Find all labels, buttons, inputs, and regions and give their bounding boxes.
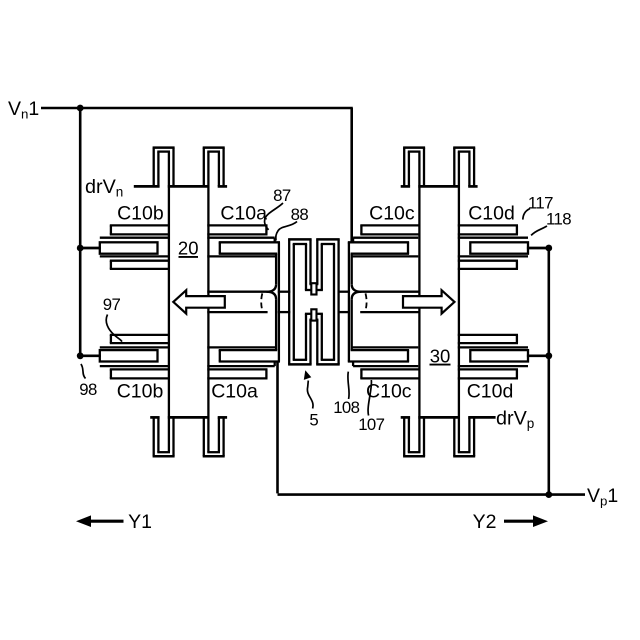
drive electrode fork top-right xyxy=(401,148,478,187)
node dot Vp1 corner junction xyxy=(545,491,552,498)
leader line 107 xyxy=(368,380,371,416)
svg-text:5: 5 xyxy=(309,411,318,430)
node dot C10d lower electrode tap xyxy=(545,352,552,359)
svg-text:C10c: C10c xyxy=(366,381,412,403)
label C10a lower xyxy=(211,381,258,403)
label C10c lower xyxy=(366,381,412,403)
svg-text:97: 97 xyxy=(103,295,121,314)
node Vn1 junction dot xyxy=(77,105,84,112)
axis arrow Y2 (rightward) xyxy=(504,515,548,527)
label drVn xyxy=(85,176,123,200)
label 5 xyxy=(309,411,318,430)
svg-text:C10b: C10b xyxy=(117,203,164,225)
leader line 88 xyxy=(276,222,297,241)
capacitor C10d upper comb xyxy=(458,225,528,269)
leader line 108 xyxy=(348,372,349,399)
wire Vp1 drop from C10a-lower stator xyxy=(276,362,279,494)
coupling tab lower of mass 5 xyxy=(311,309,316,320)
electrode lead C10b upper xyxy=(80,247,101,250)
node dot C10b lower electrode tap xyxy=(77,352,84,359)
label 107 xyxy=(358,415,384,434)
svg-text:Y1: Y1 xyxy=(128,511,152,533)
svg-text:C10b: C10b xyxy=(117,381,164,403)
capacitor C10d lower comb xyxy=(458,335,528,379)
axis arrow Y1 (leftward) xyxy=(76,515,124,527)
movable plate bar right of mass 5 xyxy=(316,239,340,364)
label Vn1 xyxy=(8,98,39,122)
node dot C10d upper electrode tap xyxy=(545,245,552,252)
block arrow drive direction right xyxy=(403,290,455,313)
svg-text:C10d: C10d xyxy=(467,381,514,403)
label 88 xyxy=(291,205,309,224)
label 108 xyxy=(333,398,359,417)
wire Vp1 horizontal bus xyxy=(278,493,586,496)
wire Vp1 right vertical bus xyxy=(547,248,550,495)
electrode lead C10b lower xyxy=(80,354,101,357)
spine rotor frame left (stator 30 left column) xyxy=(418,152,420,453)
svg-text:C10a: C10a xyxy=(211,381,258,403)
svg-text:118: 118 xyxy=(546,210,571,229)
label Y2 xyxy=(473,511,497,533)
label 98 xyxy=(79,380,97,399)
svg-text:108: 108 xyxy=(333,398,359,417)
bridge lower between mass bars xyxy=(309,319,318,321)
svg-text:30: 30 xyxy=(430,346,451,367)
wire Vn1 left vertical bus xyxy=(79,108,82,356)
capacitor C10a upper comb xyxy=(207,225,280,291)
label 30 stator right xyxy=(430,346,451,367)
label C10a upper xyxy=(220,203,267,225)
capacitor C10a lower comb xyxy=(207,292,280,379)
label drVp xyxy=(496,408,534,432)
drive electrode fork bottom-right (drVp comb) xyxy=(401,417,496,456)
spine rotor frame left (stator 20 left column) xyxy=(168,152,170,453)
node dot C10b upper electrode tap xyxy=(77,245,84,252)
spine rotor frame right (stator 20 right column) xyxy=(207,152,209,453)
svg-text:87: 87 xyxy=(273,186,291,205)
block arrow drive direction left xyxy=(173,290,225,313)
capacitor C10c lower comb xyxy=(348,292,421,379)
svg-text:C10c: C10c xyxy=(369,203,415,225)
electrode lead C10d upper xyxy=(527,247,549,250)
label 20 stator left xyxy=(178,238,199,259)
leader line 117 xyxy=(523,209,530,220)
label 118 xyxy=(546,210,571,229)
svg-text:C10a: C10a xyxy=(220,203,267,225)
leader line 97 xyxy=(106,315,122,342)
label 97 xyxy=(103,295,121,314)
flexure dashed arc right xyxy=(366,293,367,310)
svg-text:Y2: Y2 xyxy=(473,511,497,533)
capacitor C10b lower comb xyxy=(100,335,170,379)
label Y1 xyxy=(128,511,152,533)
movable plate bar left of mass 5 xyxy=(288,239,312,364)
drive electrode fork top-left (drVn comb) xyxy=(134,148,227,187)
electrode lead C10d lower xyxy=(527,354,549,357)
label C10b lower xyxy=(117,381,164,403)
svg-text:107: 107 xyxy=(358,415,384,434)
wire Vn1 horizontal lead xyxy=(41,107,353,110)
label C10b upper xyxy=(117,203,164,225)
svg-text:98: 98 xyxy=(79,380,97,399)
capacitor C10c upper comb xyxy=(348,225,421,291)
capacitor C10b upper comb xyxy=(100,225,170,269)
bridge upper between mass bars xyxy=(309,283,318,285)
coupling tab upper of mass 5 xyxy=(311,283,316,294)
label 117 xyxy=(528,194,553,213)
svg-text:20: 20 xyxy=(178,238,199,259)
flexure dashed arc left xyxy=(261,293,262,310)
pointer arrow to mass 5 xyxy=(304,370,313,408)
drive electrode fork bottom-left xyxy=(150,417,227,456)
label C10d upper xyxy=(468,203,515,225)
leader line 98 xyxy=(81,364,86,379)
svg-text:C10d: C10d xyxy=(468,203,515,225)
leader line 87 xyxy=(264,203,283,230)
svg-text:88: 88 xyxy=(291,205,309,224)
label C10c upper xyxy=(369,203,415,225)
beam of movable mass (crossbar) xyxy=(207,292,420,312)
leader line 118 xyxy=(531,226,547,235)
spine rotor frame right (stator 30 right column) xyxy=(458,152,460,453)
label C10d lower xyxy=(467,381,514,403)
label Vp1 xyxy=(587,485,618,509)
wire Vn1 right drop to C10c stator xyxy=(350,108,353,242)
label 87 xyxy=(273,186,291,205)
